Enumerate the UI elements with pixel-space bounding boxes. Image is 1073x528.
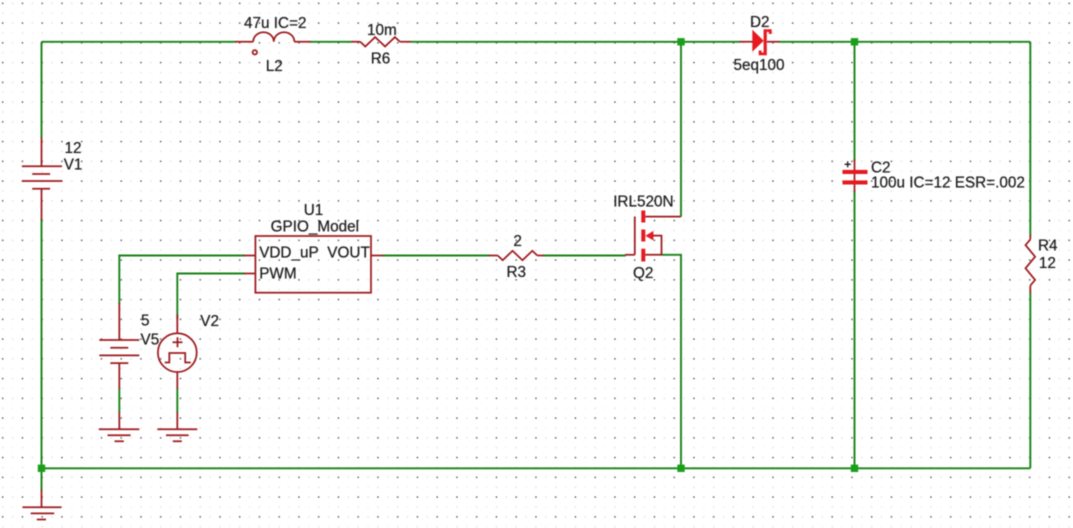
wire top rail D2 to right <box>779 41 1030 43</box>
svg-text:PWM: PWM <box>259 266 296 283</box>
svg-text:V2: V2 <box>200 313 219 330</box>
svg-text:47u IC=2: 47u IC=2 <box>244 15 307 32</box>
wire left rail upper <box>41 42 43 138</box>
wire top rail L2 to R6 <box>310 41 352 43</box>
svg-text:10m: 10m <box>367 22 397 39</box>
junction top rail at drain <box>677 38 684 45</box>
svg-text:VOUT: VOUT <box>327 245 370 262</box>
svg-text:V5: V5 <box>141 332 160 349</box>
svg-text:5: 5 <box>141 313 150 330</box>
ground bottom-left <box>23 490 62 520</box>
resistor R4 <box>1026 235 1036 294</box>
resistor R6 <box>352 37 411 46</box>
diode D2 <box>740 29 780 55</box>
resistor R3 <box>489 251 544 260</box>
IC U1 GPIO_Model <box>244 236 384 293</box>
wire bottom rail <box>42 467 1031 469</box>
wire V5 to ground <box>118 389 120 413</box>
ground V5 <box>99 412 140 441</box>
svg-text:5eq100: 5eq100 <box>734 57 785 74</box>
wire left rail lower <box>41 219 43 468</box>
svg-text:12: 12 <box>1039 255 1056 272</box>
svg-text:D2: D2 <box>750 14 770 31</box>
svg-text:U1: U1 <box>304 202 324 219</box>
wire right rail lower <box>1029 293 1031 469</box>
wire PWM to V2 <box>177 274 244 320</box>
wire C2 bottom <box>854 191 856 468</box>
wire V2 to ground <box>176 388 178 413</box>
inductor L2 <box>236 32 311 54</box>
svg-text:V1: V1 <box>64 157 83 174</box>
svg-text:R3: R3 <box>507 264 527 281</box>
junction bottom rail at C2 <box>851 465 858 472</box>
svg-text:L2: L2 <box>266 58 283 75</box>
wire right rail upper <box>1029 42 1031 236</box>
svg-text:12: 12 <box>65 140 82 157</box>
wire top rail left segment <box>42 41 237 43</box>
MOSFET Q2 <box>625 211 681 262</box>
svg-text:GPIO_Model: GPIO_Model <box>271 219 359 236</box>
voltage source V1 <box>22 138 62 221</box>
wire VDD_uP to V5 <box>119 256 244 305</box>
junction top rail at C2 <box>851 38 858 45</box>
wire source to bottom rail <box>662 255 682 468</box>
wire bottom-left ground stub <box>41 468 43 490</box>
svg-text:2: 2 <box>513 233 522 250</box>
svg-text:100u IC=12 ESR=.002: 100u IC=12 ESR=.002 <box>871 174 1025 191</box>
junction bottom rail at source <box>677 465 684 472</box>
pulse source V2 <box>158 315 197 389</box>
wire top rail R6 to D2 <box>410 41 740 43</box>
capacitor C2 <box>843 160 868 193</box>
svg-text:R6: R6 <box>371 51 391 68</box>
ground V2 <box>157 412 197 441</box>
wire VOUT to R3 <box>382 255 490 257</box>
wire drain vertical <box>680 42 682 217</box>
svg-text:Q2: Q2 <box>633 265 653 282</box>
wire C2 top <box>854 42 856 161</box>
junction bottom-left <box>38 465 45 472</box>
svg-text:IRL520N: IRL520N <box>613 194 673 211</box>
wire R3 to gate <box>543 255 626 257</box>
voltage source V5 <box>99 303 139 389</box>
svg-text:R4: R4 <box>1038 237 1058 254</box>
svg-text:VDD_uP: VDD_uP <box>259 245 319 262</box>
